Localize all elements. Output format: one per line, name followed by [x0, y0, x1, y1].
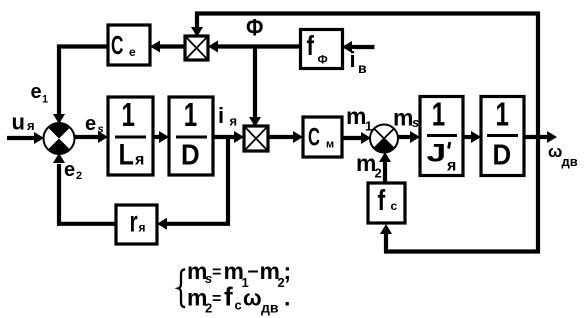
- wire es from junction to 1/L box: [74, 131, 108, 143]
- label m2: [356, 150, 382, 181]
- svg-text:1: 1: [42, 94, 48, 106]
- wire iv input into fF box: [342, 41, 375, 53]
- svg-text:r: r: [130, 206, 138, 238]
- svg-text:f: f: [224, 282, 233, 312]
- label m1: [346, 103, 372, 134]
- summing junction left (top and bottom sectors black): [44, 123, 75, 154]
- svg-text:1: 1: [496, 97, 509, 134]
- svg-text:я: я: [27, 118, 35, 133]
- svg-text:в: в: [358, 60, 367, 76]
- label Phi: [246, 14, 263, 41]
- block 1/J: [420, 97, 463, 176]
- svg-text:1: 1: [122, 97, 135, 134]
- svg-text:e: e: [129, 45, 136, 59]
- svg-text:C: C: [308, 124, 320, 151]
- svg-text:я: я: [139, 221, 146, 235]
- label ms: [393, 105, 419, 131]
- wire r output e2 up into junction bottom: [53, 153, 116, 224]
- wire output to omega with arrow: [524, 131, 557, 143]
- svg-text:D: D: [181, 138, 200, 171]
- svg-text:i: i: [350, 47, 356, 72]
- svg-text:1: 1: [432, 97, 445, 134]
- equation line 2: [187, 282, 290, 316]
- block fF: [301, 30, 343, 69]
- svg-text:=: =: [212, 291, 221, 308]
- wire bottom feedback from output vertical down to fc: [380, 137, 538, 252]
- summing junction right (bottom sector black): [370, 125, 398, 153]
- svg-text:;: ;: [284, 258, 292, 284]
- svg-text:–: –: [248, 260, 259, 282]
- block r: [116, 205, 157, 244]
- wire e1 from Ce down into summing junction top: [53, 47, 108, 125]
- block 1/L: [108, 97, 153, 175]
- svg-text:m: m: [356, 150, 376, 176]
- block Ce: [108, 25, 150, 65]
- block 1/D: [169, 97, 213, 175]
- wire branch down to r feedback: [157, 137, 228, 230]
- svg-text:я: я: [134, 152, 144, 169]
- svg-text:дв: дв: [261, 300, 279, 316]
- svg-text:m: m: [393, 105, 413, 131]
- svg-text:2: 2: [375, 166, 382, 181]
- wire between 1/L and 1/D: [153, 131, 169, 143]
- wire 1/D output to middle multiplier: [213, 131, 244, 143]
- svg-text:e: e: [64, 159, 75, 181]
- svg-text:1: 1: [365, 119, 372, 134]
- svg-text:я: я: [446, 158, 456, 175]
- svg-text:м: м: [326, 139, 334, 151]
- svg-text:e: e: [31, 81, 42, 103]
- svg-text:s: s: [98, 124, 104, 136]
- label i armature: [218, 103, 237, 129]
- block fc: [368, 183, 405, 223]
- svg-text:L: L: [119, 137, 134, 171]
- wire Cm output m1 to right summing junction: [342, 132, 371, 144]
- svg-text:i: i: [218, 103, 224, 128]
- svg-text:D: D: [493, 138, 512, 171]
- svg-text:c: c: [391, 199, 398, 213]
- svg-text:f: f: [378, 183, 386, 216]
- multiplier box middle: [244, 126, 268, 151]
- wire top multiplier output to Ce: [150, 41, 185, 53]
- wire flux branch down into middle multiplier: [249, 47, 261, 128]
- svg-text:Ф: Ф: [318, 53, 328, 67]
- svg-text:дв: дв: [562, 154, 578, 169]
- multiplier box top: [185, 36, 208, 60]
- svg-text:e: e: [85, 113, 96, 135]
- equations brace: [178, 269, 185, 307]
- wire between 1/J and 1/D2: [463, 131, 481, 143]
- label es: [85, 113, 104, 136]
- svg-text:s: s: [412, 115, 419, 130]
- svg-text:.: .: [284, 285, 290, 311]
- wire flux line from fF box left to top multiplier: [208, 41, 301, 53]
- svg-text:m: m: [346, 103, 366, 129]
- wire top feedback from output vertical across top to top multiplier: [191, 14, 538, 138]
- svg-text:ω: ω: [243, 286, 262, 311]
- svg-text:f: f: [307, 31, 315, 62]
- equation line 1: [187, 258, 291, 290]
- wire input u to left summing junction: [7, 132, 44, 144]
- label e2: [64, 159, 82, 182]
- svg-text:ω: ω: [548, 142, 562, 161]
- svg-text:1: 1: [184, 97, 197, 134]
- block 1/D2: [481, 97, 524, 176]
- label u input: [12, 110, 35, 135]
- label e1: [31, 81, 49, 106]
- svg-text:2: 2: [76, 170, 82, 182]
- wire right junction output ms to 1/J box: [397, 131, 420, 143]
- wire fc output m2 up into right junction bottom: [379, 152, 391, 183]
- svg-text:c: c: [235, 298, 242, 313]
- svg-text:Ф: Ф: [246, 14, 263, 41]
- label iv: [350, 47, 368, 76]
- svg-text:я: я: [230, 114, 238, 129]
- label omega output: [548, 142, 578, 169]
- svg-text:u: u: [12, 110, 25, 135]
- svg-text:J: J: [427, 139, 447, 167]
- svg-text:=: =: [212, 264, 221, 281]
- block Cm: [303, 117, 342, 157]
- wire middle multiplier output to Cm: [268, 131, 303, 143]
- svg-text:C: C: [111, 30, 123, 60]
